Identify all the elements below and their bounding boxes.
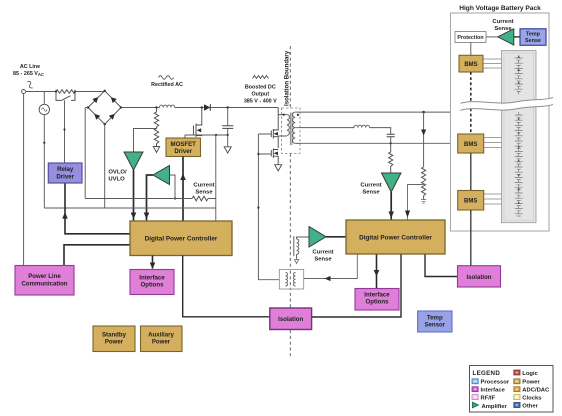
transistor: LLC lower MOSFET	[271, 149, 278, 165]
wire: sense feed into controller	[215, 135, 217, 221]
label: AC Line 85 - 265 VAC	[13, 64, 44, 77]
svg-text:ADC/DAC: ADC/DAC	[522, 388, 550, 394]
svg-text:Sense: Sense	[362, 190, 380, 196]
wire: amp input from sense line	[170, 175, 176, 199]
battery cells	[515, 55, 523, 216]
label: Current Sense (primary CT)	[312, 250, 333, 263]
svg-text:Processor: Processor	[481, 380, 510, 386]
resistor divider: output voltage sense	[421, 111, 426, 203]
wires: BMS1 to cells	[483, 59, 501, 68]
capacitor: output filter C	[387, 134, 395, 137]
wire: center tap rail	[300, 127, 354, 129]
legend swatch: RF/IF	[472, 395, 478, 400]
label: Current Sense (secondary)	[360, 183, 381, 196]
svg-text:Communication: Communication	[21, 281, 67, 288]
wire: divider tap to controller 2	[408, 185, 424, 220]
svg-text:Driver: Driver	[174, 148, 192, 155]
svg-text:Current: Current	[312, 250, 333, 256]
wire: bridge left leg down to sense line	[85, 108, 88, 199]
node junction MOSFET drain on rail	[201, 106, 203, 108]
wire: temp sense to amp	[514, 36, 520, 38]
svg-text:Temp: Temp	[526, 32, 541, 38]
resistor: secondary current sense	[389, 143, 393, 173]
transistor: boost MOSFET	[194, 108, 202, 138]
svg-text:OVLO/: OVLO/	[108, 170, 127, 176]
label: Current Sense (PFC)	[193, 183, 214, 196]
wire: controller to PLC (thick)	[64, 245, 130, 265]
svg-text:RF/IF: RF/IF	[481, 396, 496, 402]
resistor: inrush limit R	[56, 90, 75, 94]
svg-text:Sensor: Sensor	[424, 322, 445, 329]
wire: controller 2 to interface options (right)	[376, 255, 378, 289]
inductor: output filter L	[354, 125, 370, 127]
label OVLO/UVLO	[108, 170, 127, 183]
svg-text:Boosted DC: Boosted DC	[245, 85, 276, 91]
wire: AC top rail from terminal to resistor	[26, 91, 56, 93]
svg-text:Power: Power	[105, 339, 124, 346]
svg-text:LEGEND: LEGEND	[473, 370, 501, 377]
MOSFET Driver box	[166, 138, 201, 157]
relay contact (bypass switch)	[56, 92, 75, 101]
legend swatch: Power	[514, 379, 520, 384]
wire: amp output to controller	[147, 175, 154, 221]
svg-text:Other: Other	[522, 404, 538, 410]
dashed daisy chain BMS1-BMS2	[470, 72, 472, 134]
svg-text:Options: Options	[140, 282, 164, 289]
svg-text:Sense: Sense	[195, 190, 213, 196]
wire: gate drive bus	[258, 134, 279, 280]
wire: protection to BMS1	[470, 43, 472, 56]
node junction at resistor left	[55, 90, 57, 92]
svg-text:Logic: Logic	[522, 371, 538, 377]
wire: CT amp to controller 2	[326, 236, 346, 238]
svg-text:Standby: Standby	[102, 332, 127, 339]
wire: controller 2 to isolation (right)	[425, 255, 457, 277]
legend swatch: Clocks	[514, 395, 520, 400]
wire: bridge bottom leg down to sense line	[104, 124, 106, 208]
svg-text:Driver: Driver	[56, 174, 74, 181]
Interface Options box (left)	[130, 270, 174, 295]
ground: half-bridge return	[275, 165, 282, 171]
Interface Options box (right)	[355, 289, 399, 311]
diode: boost D	[204, 104, 210, 111]
node junction cap on rail	[227, 106, 229, 108]
svg-text:Interface: Interface	[139, 275, 165, 282]
wire: secondary top rail to battery pack	[300, 111, 450, 113]
Digital Power Controller (secondary)	[346, 220, 445, 254]
BMS box 1	[459, 55, 483, 72]
node: AC input terminal	[22, 90, 26, 94]
resistor divider: OVLO sense chain	[153, 108, 159, 153]
svg-text:Protection: Protection	[457, 35, 483, 41]
Temp Sensor box	[418, 311, 452, 332]
svg-text:Current: Current	[193, 183, 214, 189]
wire: terminal down to Power Line Communication	[23, 94, 25, 266]
svg-text:Auxiliary: Auxiliary	[148, 332, 174, 339]
wire: upper sense line with shunt	[85, 198, 216, 200]
svg-text:UVLO: UVLO	[108, 177, 125, 183]
ground below cap	[224, 135, 231, 153]
op-amp: primary current sense amp	[309, 227, 326, 248]
battery stack	[501, 51, 536, 223]
wire: controller 2 to gate transformer	[304, 255, 358, 279]
svg-text:Output: Output	[251, 92, 269, 98]
svg-text:Isolation: Isolation	[278, 316, 303, 323]
svg-text:Options: Options	[365, 299, 389, 306]
svg-text:Sense: Sense	[525, 38, 541, 44]
wire: relay contact to Relay Driver	[64, 100, 66, 163]
svg-text:AC Line: AC Line	[20, 64, 40, 70]
battery pack enclosure	[450, 13, 549, 231]
svg-text:BMS: BMS	[464, 62, 477, 68]
svg-text:Digital Power Controller: Digital Power Controller	[359, 235, 432, 242]
wire: divider tap to OVLO/UVLO amp	[134, 129, 157, 153]
diode bridge rectifier	[87, 90, 122, 126]
legend swatch: Logic	[514, 370, 520, 375]
svg-text:Digital Power Controller: Digital Power Controller	[145, 236, 218, 243]
wire: lower sense line	[44, 207, 216, 209]
svg-text:MOSFET: MOSFET	[171, 141, 197, 148]
svg-text:Isolation Boundary: Isolation Boundary	[284, 50, 291, 106]
svg-text:Rectified AC: Rectified AC	[151, 82, 183, 88]
wire: center isolation to controller 2	[312, 255, 401, 318]
svg-text:85 - 265 VAC: 85 - 265 VAC	[13, 71, 44, 77]
gate transformer (isolated gate drive)	[279, 270, 303, 290]
Digital Power Controller (primary)	[130, 221, 232, 256]
inductor: PFC boost L	[160, 105, 175, 107]
svg-text:Relay: Relay	[57, 166, 74, 173]
AC source V1	[39, 91, 49, 208]
node junction on relay wire	[63, 128, 65, 130]
node junction divider tap on rail	[155, 106, 157, 108]
BMS box 3	[458, 191, 484, 211]
wire: BMS chain to isolation (right)	[470, 210, 472, 266]
resistor: current sense shunt	[192, 196, 208, 201]
op-amp: OVLO/UVLO comparator	[124, 152, 143, 170]
label: Rectified AC	[151, 76, 183, 88]
legend swatch: ADC/DAC	[514, 387, 520, 392]
svg-text:Sense: Sense	[314, 257, 332, 263]
Temp Sense box (pack)	[520, 29, 546, 46]
svg-text:High Voltage Battery Pack: High Voltage Battery Pack	[459, 5, 541, 12]
svg-text:Power: Power	[152, 339, 171, 346]
legend swatch: Other	[514, 403, 520, 408]
AC waveform symbol	[28, 81, 33, 88]
svg-text:BMS: BMS	[464, 142, 477, 148]
Power Line Communication box	[15, 266, 74, 296]
svg-text:Power: Power	[522, 380, 540, 386]
transistor: LLC upper MOSFET	[271, 108, 278, 149]
svg-text:Interface: Interface	[481, 388, 506, 394]
Protection box	[455, 32, 486, 43]
transformer T1	[278, 108, 300, 154]
wires: BMS3 to cells	[484, 194, 502, 204]
op-amp: secondary current sense amp	[382, 173, 402, 192]
wire: BMS2 to BMS3	[470, 153, 472, 191]
Relay Driver box	[48, 163, 82, 183]
legend swatch: Interface	[472, 387, 478, 392]
op-amp: voltage sense amp	[153, 166, 170, 185]
wire: amp to protection	[486, 36, 498, 38]
Standby Power box	[93, 326, 135, 352]
svg-text:Temp: Temp	[427, 315, 443, 322]
wire: sense amp to controller 2	[390, 192, 392, 220]
svg-text:Isolation: Isolation	[466, 274, 491, 281]
Isolation box (right)	[458, 266, 501, 287]
node junction on AC source wire	[43, 142, 45, 144]
svg-text:Current: Current	[360, 183, 381, 189]
isolation boundary dashed line	[289, 46, 291, 356]
svg-text:Current: Current	[492, 19, 513, 25]
wire: MOSFET source / cap return node	[185, 135, 228, 138]
label: Boosted DC Output 385 V - 400 V	[244, 76, 277, 105]
svg-text:385 V - 400 V: 385 V - 400 V	[244, 99, 277, 105]
wire: secondary bottom rail to battery pack	[300, 142, 450, 144]
wires: BMS2 to cells	[484, 138, 502, 148]
legend swatch: Amplifier	[472, 402, 478, 408]
svg-text:BMS: BMS	[464, 199, 477, 205]
wire: controller to center isolation	[183, 256, 270, 317]
wire: controller to relay driver (thick)	[65, 184, 130, 234]
legend swatch: Processor	[472, 379, 478, 384]
svg-text:Amplifier: Amplifier	[482, 404, 508, 410]
svg-text:Power Line: Power Line	[28, 273, 61, 280]
wire: controller to interface options (left)	[152, 256, 154, 269]
label: Current Sense (pack)	[492, 19, 513, 32]
svg-text:Interface: Interface	[364, 292, 390, 299]
pack tear (break)	[461, 97, 554, 110]
svg-text:Clocks: Clocks	[522, 396, 542, 402]
wire: OVLO output to controller	[133, 170, 135, 221]
wire: controller to MOSFET driver	[182, 157, 184, 221]
current transformer: primary current sense	[294, 236, 309, 264]
wire: rectified DC rail	[121, 107, 278, 109]
Auxiliary Power box	[141, 326, 183, 352]
op-amp: pack current sense amp	[498, 29, 514, 45]
BMS box 2	[458, 134, 484, 153]
node junction at resistor right	[74, 90, 76, 92]
wire: rail resistor to bridge top	[75, 90, 105, 93]
capacitor: boost bulk C	[222, 108, 233, 136]
Isolation box (center)	[270, 308, 312, 330]
